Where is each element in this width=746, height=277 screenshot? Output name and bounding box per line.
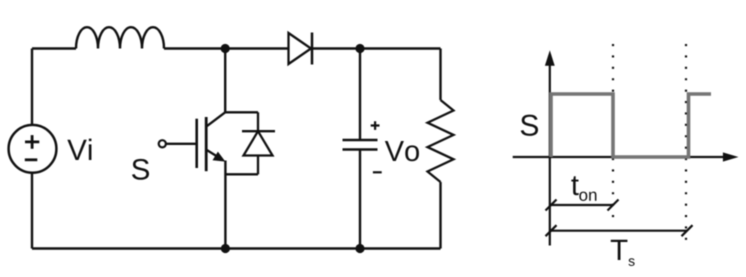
label t (571, 176, 578, 195)
node A junction dot (top left) (221, 44, 230, 53)
IGBT Q1 emitter diagonal (207, 150, 222, 160)
IGBT Q1 collector diagonal (207, 112, 225, 126)
wire diode to node B (312, 47, 441, 49)
timing horizontal axis (513, 156, 724, 158)
anti-parallel diode bottom wire (225, 173, 258, 175)
label S (waveform) (521, 115, 538, 136)
capacitor C top plate (343, 139, 378, 142)
capacitor plus sign (371, 121, 380, 130)
diode D1 cathode bar (311, 33, 314, 65)
timing vertical axis (549, 63, 551, 246)
capacitor minus sign (373, 171, 382, 173)
anti-parallel diode triangle (244, 131, 273, 155)
Ts dimension line (551, 230, 687, 232)
Ts left slash tick (546, 225, 557, 236)
waveform S (gray square wave) (551, 94, 711, 157)
label s subscript (628, 258, 634, 266)
anti-parallel diode cathode bar (242, 130, 275, 132)
wire collector vertical (node A down to IGBT) (224, 49, 226, 113)
IGBT Q1 emitter arrowhead (213, 152, 226, 162)
capacitor C top wire (359, 49, 361, 141)
anti-parallel diode lower vertical (257, 156, 259, 175)
timing vertical axis arrowhead (545, 50, 555, 66)
anti-parallel diode upper vertical (257, 112, 259, 131)
Ts right slash tick (682, 225, 693, 236)
resistor R load zigzag (428, 100, 454, 182)
wire left rail bottom (source to bottom rail) (31, 173, 33, 249)
capacitor C bottom wire (359, 150, 361, 249)
wire inductor to node A (164, 47, 289, 49)
IGBT Q1 gate wire (166, 143, 197, 145)
wire top rail to inductor (32, 47, 76, 49)
wire left rail top (source to top rail) (31, 49, 33, 125)
label T (611, 240, 628, 260)
IGBT Q1 gate terminal circle (159, 140, 166, 147)
label Vi (67, 139, 91, 160)
wire bottom rail (32, 247, 441, 249)
node B junction dot (top right) (355, 44, 364, 53)
timing horizontal axis arrowhead (723, 152, 739, 161)
junction dot bottom left (221, 244, 230, 253)
ton left slash tick (546, 200, 557, 211)
ton dimension line (551, 204, 613, 206)
voltage source plus sign (25, 135, 39, 149)
wire right rail top (439, 49, 441, 101)
wire emitter vertical (IGBT down to bottom rail) (224, 161, 226, 249)
anti-parallel diode top wire (225, 111, 258, 113)
label Vo (385, 141, 419, 161)
voltage source Vi circle (9, 125, 57, 173)
capacitor C bottom plate (343, 148, 378, 151)
voltage source minus sign (25, 158, 38, 161)
ton right slash tick (608, 200, 619, 211)
diode D1 triangle (289, 33, 312, 64)
label on subscript (579, 192, 596, 201)
dotted line at ton (612, 44, 614, 221)
label S (gate) (132, 159, 149, 180)
IGBT Q1 body bar (205, 117, 208, 171)
wire right rail bottom (439, 182, 441, 249)
dotted line at Ts (685, 44, 687, 248)
junction dot bottom right (355, 244, 364, 253)
inductor L (76, 27, 164, 48)
IGBT Q1 gate bar (195, 119, 198, 168)
